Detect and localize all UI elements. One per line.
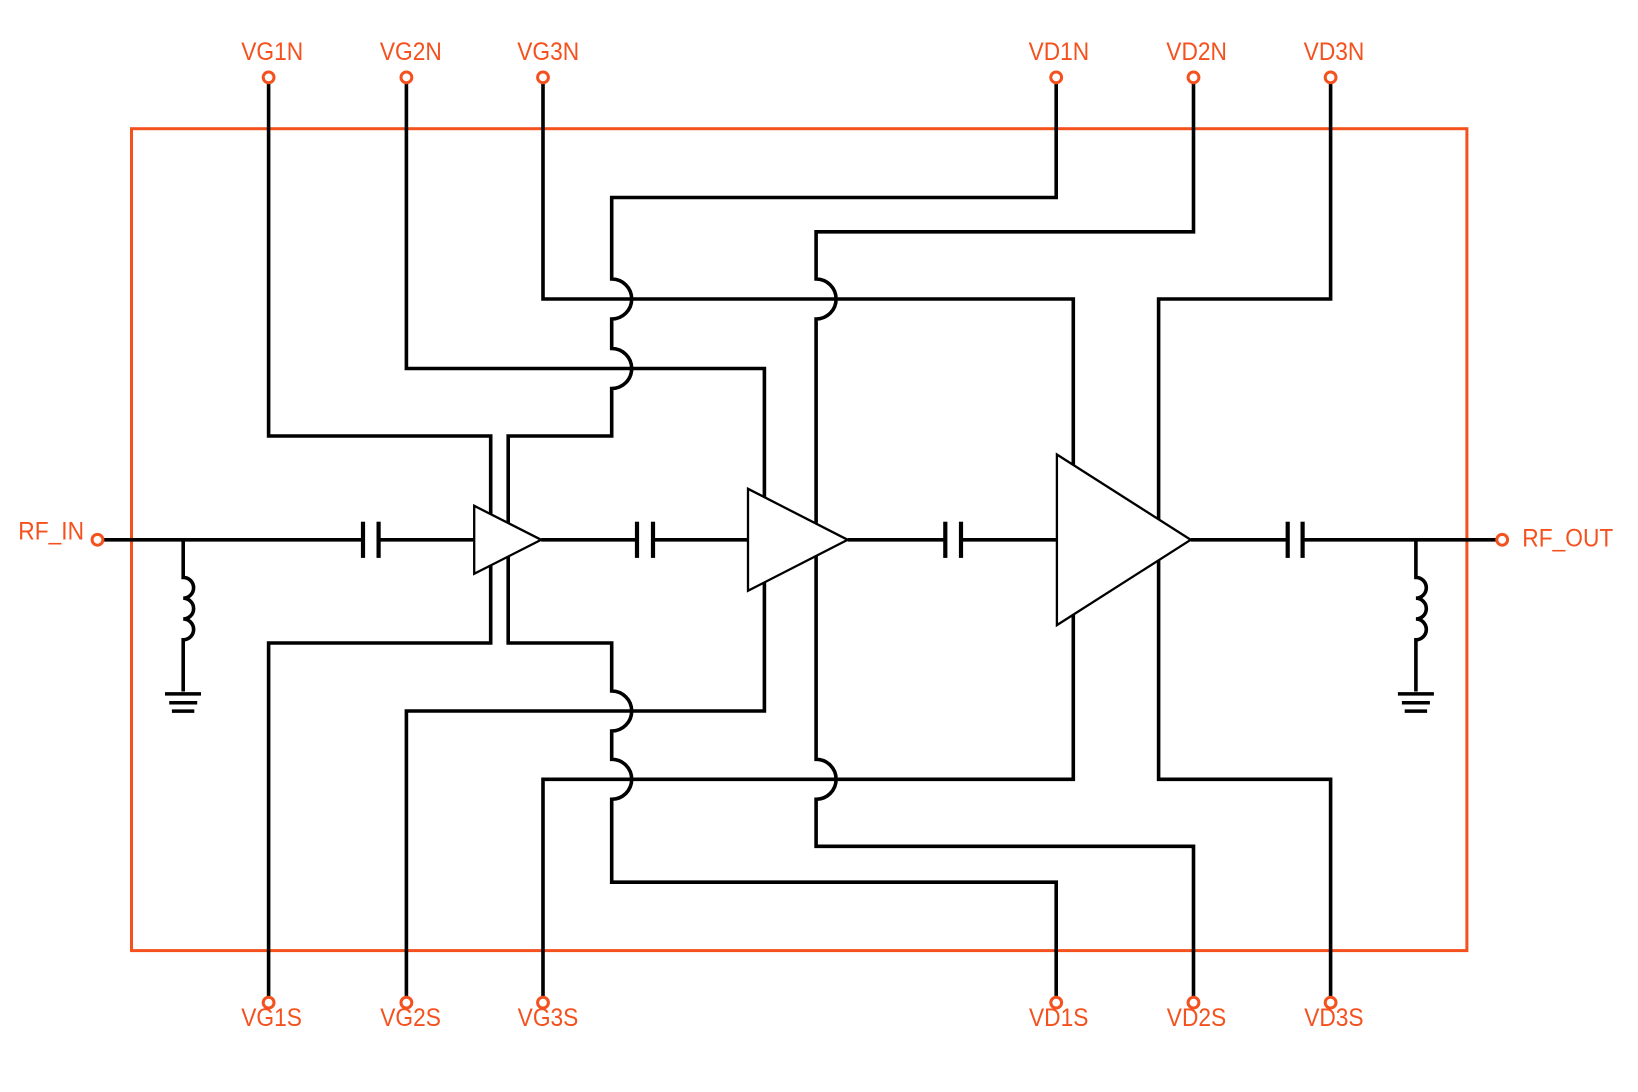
pin VD2N — [1188, 72, 1199, 83]
pin VG3S — [538, 997, 549, 1008]
svg-text:VG2S: VG2S — [380, 1004, 441, 1032]
inductor L2 (shunt at output) — [1416, 540, 1426, 692]
wire VG2S net — [406, 582, 764, 1002]
pin RF_OUT — [1497, 534, 1508, 545]
pin VG1S — [263, 997, 274, 1008]
wire VD3S net — [1159, 560, 1331, 1002]
ground GND2 (right) — [1398, 694, 1434, 711]
wire VD2S net (with hop over VG3S) — [816, 556, 1193, 1003]
wire VD1S net (with hops over VG3S and VG2S) — [508, 557, 1056, 1003]
svg-text:VD2S: VD2S — [1167, 1004, 1226, 1032]
chip boundary (orange border) — [132, 129, 1467, 951]
svg-text:VD1N: VD1N — [1029, 38, 1090, 66]
svg-text:VG1S: VG1S — [241, 1004, 302, 1032]
svg-text:VG3N: VG3N — [517, 38, 579, 66]
pin VD1S — [1051, 997, 1062, 1008]
wire cap4 to RF output — [1303, 538, 1497, 542]
capacitor C3 — [945, 522, 961, 558]
wire VD2N net (with hop over VG3N) — [816, 77, 1193, 523]
op-amp U3 (stage 3) — [1057, 455, 1191, 626]
svg-text:VD3N: VD3N — [1304, 38, 1365, 66]
svg-text:VG1N: VG1N — [241, 38, 303, 66]
wire cap3 to amp3 — [961, 538, 1057, 542]
wire VG3N net — [543, 77, 1073, 465]
pin VD2S — [1188, 997, 1199, 1008]
wire amp3 to cap4 — [1191, 538, 1288, 542]
pin VG1N — [263, 72, 274, 83]
svg-text:RF_IN: RF_IN — [18, 518, 84, 546]
wire amp2 to cap3 — [848, 538, 946, 542]
pin VG2S — [401, 997, 412, 1008]
wire VG1N net — [269, 77, 491, 514]
inductor L1 (shunt at input) — [183, 540, 193, 692]
pin VD1N — [1051, 72, 1062, 83]
svg-text:VD2N: VD2N — [1166, 38, 1227, 66]
op-amp U1 (stage 1) — [474, 506, 541, 574]
wire VG3S net — [543, 615, 1073, 1003]
svg-text:VG3S: VG3S — [518, 1004, 579, 1032]
svg-text:VG2N: VG2N — [380, 38, 442, 66]
wire VG1S net — [269, 565, 491, 1002]
svg-text:RF_OUT: RF_OUT — [1522, 524, 1613, 552]
svg-text:VD3S: VD3S — [1304, 1004, 1363, 1032]
wire VD1N net (with hops over VG3N and VG2N) — [508, 77, 1056, 523]
ground GND1 (left) — [165, 694, 201, 711]
wire cap1 to amp1 — [379, 538, 475, 542]
wire VD3N net — [1159, 77, 1331, 519]
capacitor C1 — [363, 522, 379, 558]
capacitor C2 — [637, 522, 653, 558]
pin VG2N — [401, 72, 412, 83]
op-amp U2 (stage 2) — [748, 489, 848, 591]
capacitor C4 — [1288, 522, 1303, 558]
pin RF_IN — [92, 534, 103, 545]
pin VG3N — [538, 72, 549, 83]
wire RF input segment — [103, 538, 363, 542]
wire cap2 to amp2 — [653, 538, 748, 542]
pin VD3N — [1325, 72, 1336, 83]
pin VD3S — [1325, 997, 1336, 1008]
svg-text:VD1S: VD1S — [1029, 1004, 1088, 1032]
wire amp1 to cap2 — [541, 538, 637, 542]
wire VG2N net — [406, 77, 764, 497]
